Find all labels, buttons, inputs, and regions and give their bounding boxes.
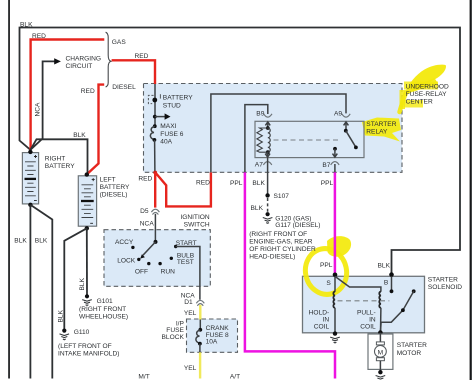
svg-text:WHEELHOUSE): WHEELHOUSE) [79, 313, 128, 320]
svg-text:FUSE 6: FUSE 6 [160, 131, 183, 138]
wire grey inside box to relay A9 [211, 94, 346, 172]
left page border [8, 0, 10, 379]
right page border [470, 0, 472, 380]
ground G120/G117 [263, 212, 273, 223]
connector D5 [151, 209, 159, 214]
svg-text:G117 (DIESEL): G117 (DIESEL) [275, 222, 320, 229]
ground G101 [82, 294, 92, 305]
svg-text:GAS: GAS [112, 39, 127, 46]
wire RED to ignition switch D5 [154, 172, 156, 207]
node feed arrow [153, 115, 157, 119]
svg-text:G110: G110 [74, 329, 90, 336]
svg-text:M: M [378, 349, 384, 356]
I/P fuse block box [187, 319, 238, 352]
svg-text:SOLENOID: SOLENOID [428, 284, 462, 291]
highlighter circle at solenoid S terminal [301, 245, 351, 299]
pin B7 [331, 162, 339, 165]
solenoid contact arm [381, 289, 416, 331]
svg-text:NCA: NCA [140, 221, 155, 228]
pull-in coil [379, 292, 381, 333]
hold-in coil [333, 276, 335, 332]
svg-text:RIGHT: RIGHT [45, 155, 66, 162]
svg-text:HEAD-DIESEL): HEAD-DIESEL) [249, 254, 295, 261]
svg-text:RELAY: RELAY [366, 128, 388, 135]
svg-text:OFF: OFF [135, 268, 148, 275]
svg-text:CIRCUIT: CIRCUIT [66, 63, 93, 70]
svg-text:M/T: M/T [138, 374, 149, 380]
svg-text:RED: RED [32, 33, 46, 40]
svg-text:SWITCH: SWITCH [184, 221, 210, 228]
wire PPL from B9 branch to A/T [245, 172, 335, 378]
pin A9 [342, 114, 350, 117]
fuse MAXI FUSE 6 40A [150, 124, 156, 172]
svg-text:D1: D1 [184, 299, 193, 306]
wire BLK dashed to ground [267, 198, 269, 212]
pin A7 [263, 162, 271, 165]
svg-text:BLK: BLK [20, 21, 33, 28]
battery right [22, 150, 38, 207]
wire YEL to M/T A/T [199, 352, 201, 378]
svg-text:BLK: BLK [378, 262, 391, 269]
battery left [78, 172, 96, 230]
svg-text:COIL: COIL [360, 324, 376, 331]
svg-text:BLK: BLK [73, 132, 86, 139]
svg-text:COIL: COIL [314, 324, 330, 331]
splice S107 [265, 193, 269, 197]
wire PPL from B7 to solenoid S [334, 164, 336, 172]
svg-text:B7: B7 [322, 162, 330, 169]
node red junction below box [153, 171, 157, 175]
svg-text:BLK: BLK [252, 180, 265, 187]
ignition switch box [104, 230, 210, 287]
highlighter swoosh near underhood label [406, 65, 446, 94]
brace gas/diesel [106, 32, 111, 87]
svg-text:TEST: TEST [177, 259, 194, 266]
svg-text:MAXI: MAXI [160, 123, 176, 130]
wire RED diesel to left battery [87, 85, 104, 175]
starter motor [368, 333, 393, 372]
svg-text:RED: RED [138, 175, 152, 182]
svg-text:BLK: BLK [14, 237, 27, 244]
svg-text:STARTER: STARTER [366, 121, 396, 128]
svg-text:BATTERY: BATTERY [163, 94, 193, 101]
wire START output [176, 247, 200, 300]
svg-text:IN: IN [323, 316, 330, 323]
svg-text:BLOCK: BLOCK [162, 334, 185, 341]
svg-text:A7: A7 [255, 162, 263, 169]
svg-text:BATTERY: BATTERY [45, 163, 75, 170]
pin B9 [264, 114, 272, 117]
wire BLK right battery ground 1 [29, 205, 31, 379]
wire RED into fuse-relay center [112, 60, 155, 84]
node motor junction [378, 330, 383, 335]
connector D1 [196, 300, 204, 305]
solenoid dashed link [338, 300, 390, 302]
relay coil with resistor [257, 126, 270, 154]
ground starter motor [376, 370, 386, 379]
svg-text:(DIESEL): (DIESEL) [100, 192, 128, 199]
wire BLK left battery to G110 [64, 228, 87, 329]
svg-text:S107: S107 [274, 193, 290, 200]
svg-text:PPL: PPL [320, 262, 333, 269]
svg-text:LEFT: LEFT [100, 176, 116, 183]
svg-text:RED: RED [81, 88, 95, 95]
wire BLK jumper right battery to left battery [30, 139, 87, 173]
svg-text:IGNITION: IGNITION [180, 214, 210, 221]
svg-text:B: B [384, 280, 389, 287]
svg-text:INTAKE MANIFOLD): INTAKE MANIFOLD) [58, 350, 119, 357]
svg-text:PPL: PPL [321, 180, 334, 187]
svg-text:ENGINE-GAS, REAR: ENGINE-GAS, REAR [249, 239, 313, 246]
wire B into contact [391, 276, 393, 291]
svg-text:S: S [326, 280, 331, 287]
svg-text:D5: D5 [140, 208, 149, 215]
svg-text:STARTER: STARTER [428, 276, 458, 283]
svg-text:DIESEL: DIESEL [112, 84, 136, 91]
relay mechanical dashed link [274, 139, 342, 141]
ground G110 [60, 329, 70, 340]
svg-text:YEL: YEL [184, 365, 197, 372]
svg-text:(RIGHT FRONT: (RIGHT FRONT [79, 306, 126, 313]
wire YEL to crank fuse [199, 305, 201, 320]
starter solenoid box [303, 276, 425, 333]
svg-text:(RIGHT FRONT OF: (RIGHT FRONT OF [249, 231, 307, 238]
wire S to pull-in coil [335, 276, 381, 291]
wire RED gas feed [31, 40, 105, 150]
svg-text:NCA: NCA [35, 102, 42, 117]
svg-text:LOCK: LOCK [117, 258, 136, 265]
svg-text:G101: G101 [97, 298, 113, 305]
wire BLK from A7 to S107 [267, 158, 269, 196]
svg-text:A9: A9 [334, 111, 342, 118]
highlighter on starter relay label [362, 118, 401, 142]
svg-text:FUSE-RELAY: FUSE-RELAY [406, 91, 448, 98]
svg-text:YEL: YEL [184, 310, 197, 317]
svg-text:RED: RED [196, 179, 210, 186]
svg-text:MOTOR: MOTOR [397, 350, 422, 357]
wire BLK left battery to G101 [86, 228, 88, 295]
underhood fuse-relay center box [144, 84, 403, 173]
starter relay box [255, 121, 364, 157]
svg-text:BLK: BLK [251, 205, 264, 212]
ignition switch internals [131, 240, 177, 265]
svg-text:ACCY: ACCY [115, 239, 134, 246]
svg-text:(LEFT FRONT OF: (LEFT FRONT OF [58, 343, 112, 350]
svg-text:OF RIGHT CYLINDER: OF RIGHT CYLINDER [249, 246, 316, 253]
relay switch [333, 129, 358, 158]
svg-text:RUN: RUN [161, 268, 176, 275]
node B terminal [389, 272, 394, 277]
svg-text:STUD: STUD [163, 103, 181, 110]
wire B9 feed [245, 105, 268, 173]
svg-text:STARTER: STARTER [397, 342, 427, 349]
svg-text:CENTER: CENTER [406, 99, 433, 106]
svg-text:UNDERHOOD: UNDERHOOD [406, 84, 449, 91]
svg-text:40A: 40A [160, 139, 172, 146]
fuse CRANK FUSE 8 10A [196, 328, 202, 352]
wire BLK main from right battery to solenoid B [20, 28, 461, 276]
battery stud [148, 84, 160, 126]
svg-text:RED: RED [135, 53, 149, 60]
wire NCA to charging circuit [30, 61, 54, 149]
wire BLK right battery ground 2 [30, 205, 52, 379]
svg-text:BLK: BLK [35, 237, 48, 244]
wire NCA into ignition switch [154, 214, 156, 242]
svg-text:10A: 10A [206, 339, 218, 346]
wire RED loop to relay A9 feed [155, 172, 211, 206]
svg-text:IN: IN [369, 316, 376, 323]
node S terminal [333, 273, 338, 278]
svg-text:BLK: BLK [79, 277, 86, 290]
svg-text:A/T: A/T [230, 374, 240, 380]
svg-text:PPL: PPL [230, 180, 243, 187]
svg-text:BATTERY: BATTERY [100, 184, 130, 191]
svg-text:CHARGING: CHARGING [66, 56, 102, 63]
svg-text:BLK: BLK [58, 309, 65, 322]
ground hold-in coil [330, 331, 340, 343]
